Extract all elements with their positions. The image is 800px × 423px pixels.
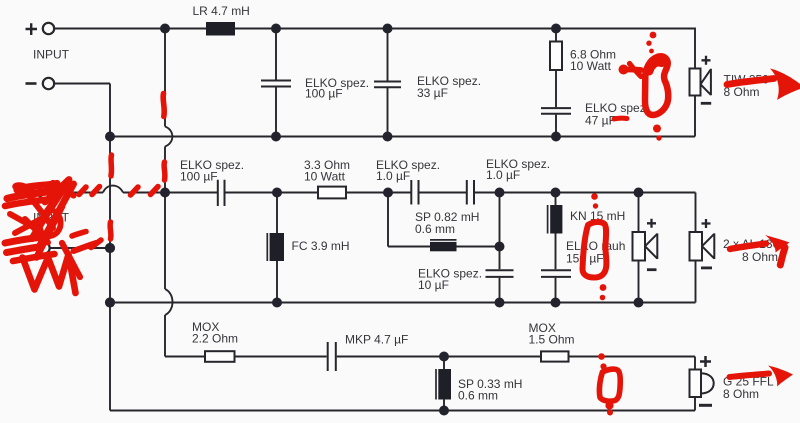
label ELKO spez 47 uF — [585, 101, 649, 128]
svg-text:MKP 4.7 µF: MKP 4.7 µF — [345, 333, 408, 347]
label G 25 FFL 8 Ohm — [723, 375, 774, 402]
svg-text:FC 3.9 mH: FC 3.9 mH — [292, 239, 350, 253]
label SP 0.82 mH 0.6 mm — [415, 210, 479, 236]
red arrow tweeter — [730, 366, 794, 387]
node top rail at 6.8ohm — [551, 24, 561, 34]
svg-text:8 Ohm: 8 Ohm — [742, 250, 778, 264]
resistor MOX 2.2 Ohm — [205, 351, 235, 362]
red dash on negative bus upper — [108, 155, 114, 176]
red dots above midrange loop — [591, 193, 598, 209]
red dots below woofer loop — [653, 125, 662, 141]
label LR 4.7 mH — [193, 4, 250, 18]
wire top positive rail from input plus to woofer branch — [55, 28, 695, 69]
wire hop of midrange line over negative bus — [103, 186, 123, 193]
red cross mark near 6.8 Ohm — [619, 64, 642, 77]
node top rail at 100uF — [271, 24, 281, 34]
wire SP 0.82mH sub-branch — [388, 193, 500, 247]
svg-text:100 µF: 100 µF — [305, 87, 343, 101]
node midrange return at FC — [272, 298, 282, 308]
label second INPUT — [33, 211, 70, 225]
wire FC 3.9mH branch — [276, 193, 278, 303]
inductor FC 3.9 mH — [267, 233, 284, 261]
label INPUT — [33, 48, 70, 62]
svg-text:10 µF: 10 µF — [418, 278, 449, 292]
node second input minus at bus — [105, 243, 115, 253]
label FC 3.9 mH — [292, 239, 350, 253]
speaker midrange 2 polarity marks — [701, 219, 712, 268]
node woofer return at negative bus — [105, 132, 115, 142]
node woofer return at 33uF — [383, 132, 393, 142]
svg-text:1.0 µF: 1.0 µF — [486, 168, 520, 182]
svg-text:0.6 mm: 0.6 mm — [415, 222, 455, 236]
speaker TIW 250 polarity marks — [701, 56, 711, 104]
resistor 3.3 Ohm 10 Watt — [318, 187, 346, 199]
speaker tweeter G 25 FFL — [690, 370, 714, 398]
speaker midrange 1 — [633, 232, 658, 261]
node SP 0.82 junction — [495, 242, 505, 252]
wire midrange signal line — [50, 193, 696, 233]
capacitor ELKO spez. 33 uF — [374, 82, 401, 88]
svg-text:10 Watt: 10 Watt — [304, 170, 346, 184]
wire 10uF branch — [499, 193, 501, 303]
red arrow woofer — [727, 69, 800, 101]
label ELKO spez. 100 uF woofer — [305, 76, 369, 101]
wire tweeter signal line — [165, 357, 695, 370]
svg-text:47 µF: 47 µF — [585, 114, 616, 128]
svg-text:8 Ohm: 8 Ohm — [723, 387, 759, 401]
red dots below midrange loop — [600, 284, 607, 300]
svg-text:1.0 µF: 1.0 µF — [376, 169, 410, 183]
capacitor ELKO spez. 100 uF midrange — [218, 180, 225, 206]
svg-text:100 µF: 100 µF — [180, 170, 218, 184]
node midrange line at FC — [272, 188, 282, 198]
wire woofer return rail — [110, 96, 695, 137]
wire bottom rail tweeter return — [110, 397, 695, 411]
svg-text:0.6 mm: 0.6 mm — [458, 389, 498, 403]
wire midrange feed down from top rail — [164, 29, 166, 357]
red dash below woofer loop — [614, 116, 627, 122]
wire branch 6.8ohm 47uF — [555, 29, 557, 137]
svg-text:33 µF: 33 µF — [417, 86, 448, 100]
speaker midrange 1 polarity marks — [647, 219, 657, 270]
node midrange line at 10uF — [495, 188, 505, 198]
label ELKO spez. 33 uF — [417, 74, 481, 100]
red arrow midrange — [730, 235, 790, 265]
wire SP 0.33mH branch — [443, 357, 445, 411]
svg-text:10 Watt: 10 Watt — [570, 59, 612, 73]
resistor MOX 1.5 Ohm — [541, 351, 569, 361]
red dash on midrange feed wire above junction — [161, 162, 167, 180]
node midrange return at bus — [105, 297, 115, 307]
red scribble cluster over second input — [5, 180, 96, 294]
red loop annotation midrange section — [583, 222, 607, 277]
label 6.8 Ohm 10 Watt — [570, 48, 616, 74]
svg-text:1.5 Ohm: 1.5 Ohm — [529, 333, 575, 347]
second input plus terminal — [26, 187, 50, 198]
red dash on negative bus lower — [107, 222, 113, 239]
inductor LR 4.7 mH — [206, 22, 235, 36]
wire midrange speaker 1 branch — [638, 193, 640, 303]
node tweeter return at SP 0.33 — [439, 406, 449, 416]
label 2 x AL 130 8 Ohm — [723, 237, 780, 264]
wire KN 15mH branch — [555, 193, 557, 303]
label KN 15 mH — [570, 209, 625, 223]
label TIW 250 8 Ohm — [724, 73, 770, 100]
node midrange line at speaker 1 — [634, 188, 644, 198]
node top rail at midrange feed — [160, 24, 170, 34]
inductor SP 0.82 mH — [430, 240, 457, 251]
label ELKO spez. 1.0 uF second — [486, 157, 550, 182]
label MOX 2.2 Ohm — [192, 320, 238, 346]
node midrange return at speaker 1 — [634, 298, 644, 308]
capacitor ELKO spez. 10 uF — [486, 270, 514, 277]
inductor KN 15 mH — [548, 205, 563, 234]
red loop annotation woofer section — [645, 56, 668, 115]
wire negative bus from minus input down left side — [55, 84, 110, 411]
node midrange return at 10uF — [495, 298, 505, 308]
capacitor ELKO spez. 47 uF — [541, 108, 571, 114]
red dash on midrange feed wire row1 — [163, 94, 164, 117]
red dash on second input minus wire — [91, 240, 101, 248]
capacitor MKP 4.7 uF — [328, 342, 336, 371]
node midrange line at SP tap — [383, 188, 393, 198]
wire hop over woofer return rail — [165, 127, 172, 147]
wire branch 33uF woofer — [387, 29, 389, 137]
speaker tweeter polarity marks — [699, 356, 712, 405]
input minus terminal — [26, 78, 55, 89]
capacitor ELKO rauh 150 uF — [541, 270, 571, 277]
label ELKO spez. 10 uF — [418, 267, 482, 293]
red annotation tweeter dots and loop — [598, 353, 620, 415]
label MOX 1.5 Ohm — [529, 321, 575, 347]
wire midrange return rail — [110, 261, 696, 303]
resistor 6.8 Ohm 10 Watt — [550, 42, 562, 71]
speaker midrange 2 — [690, 232, 715, 261]
label ELKO spez. 100 uF midrange — [180, 158, 244, 184]
node woofer return at 100uF — [271, 132, 281, 142]
svg-text:2.2 Ohm: 2.2 Ohm — [192, 332, 238, 346]
red dots above woofer annotation — [646, 32, 656, 54]
speaker TIW 250 — [690, 69, 711, 96]
wire branch 100uF woofer — [275, 29, 277, 137]
node midrange line at feed — [160, 188, 170, 198]
capacitor ELKO spez. 1.0 uF first — [411, 180, 418, 205]
node midrange line at KN — [551, 188, 561, 198]
capacitor ELKO spez. 100 uF woofer — [261, 81, 291, 87]
label MKP 4.7 uF — [345, 333, 408, 347]
input plus terminal — [26, 23, 55, 35]
label SP 0.33 mH 0.6 mm — [458, 377, 522, 403]
wire hop over midrange return rail — [165, 289, 173, 315]
svg-text:LR 4.7 mH: LR 4.7 mH — [193, 4, 250, 18]
capacitor ELKO spez. 1.0 uF second — [467, 180, 474, 205]
inductor SP 0.33 mH — [436, 369, 451, 400]
node tweeter line at SP 0.33 — [439, 352, 449, 362]
node midrange return at KN — [551, 298, 561, 308]
node top rail at 33uF — [383, 24, 393, 34]
wire second input minus lead — [50, 247, 110, 249]
svg-text:INPUT: INPUT — [33, 48, 70, 62]
label ELKO rauh 150 uF — [566, 239, 625, 266]
label 3.3 Ohm 10 Watt — [304, 158, 350, 184]
second input minus terminal — [26, 242, 50, 253]
node woofer return at 47uF — [551, 132, 561, 142]
red dash marks on midrange signal wire — [79, 187, 158, 196]
label ELKO spez. 1.0 uF first — [376, 158, 440, 183]
